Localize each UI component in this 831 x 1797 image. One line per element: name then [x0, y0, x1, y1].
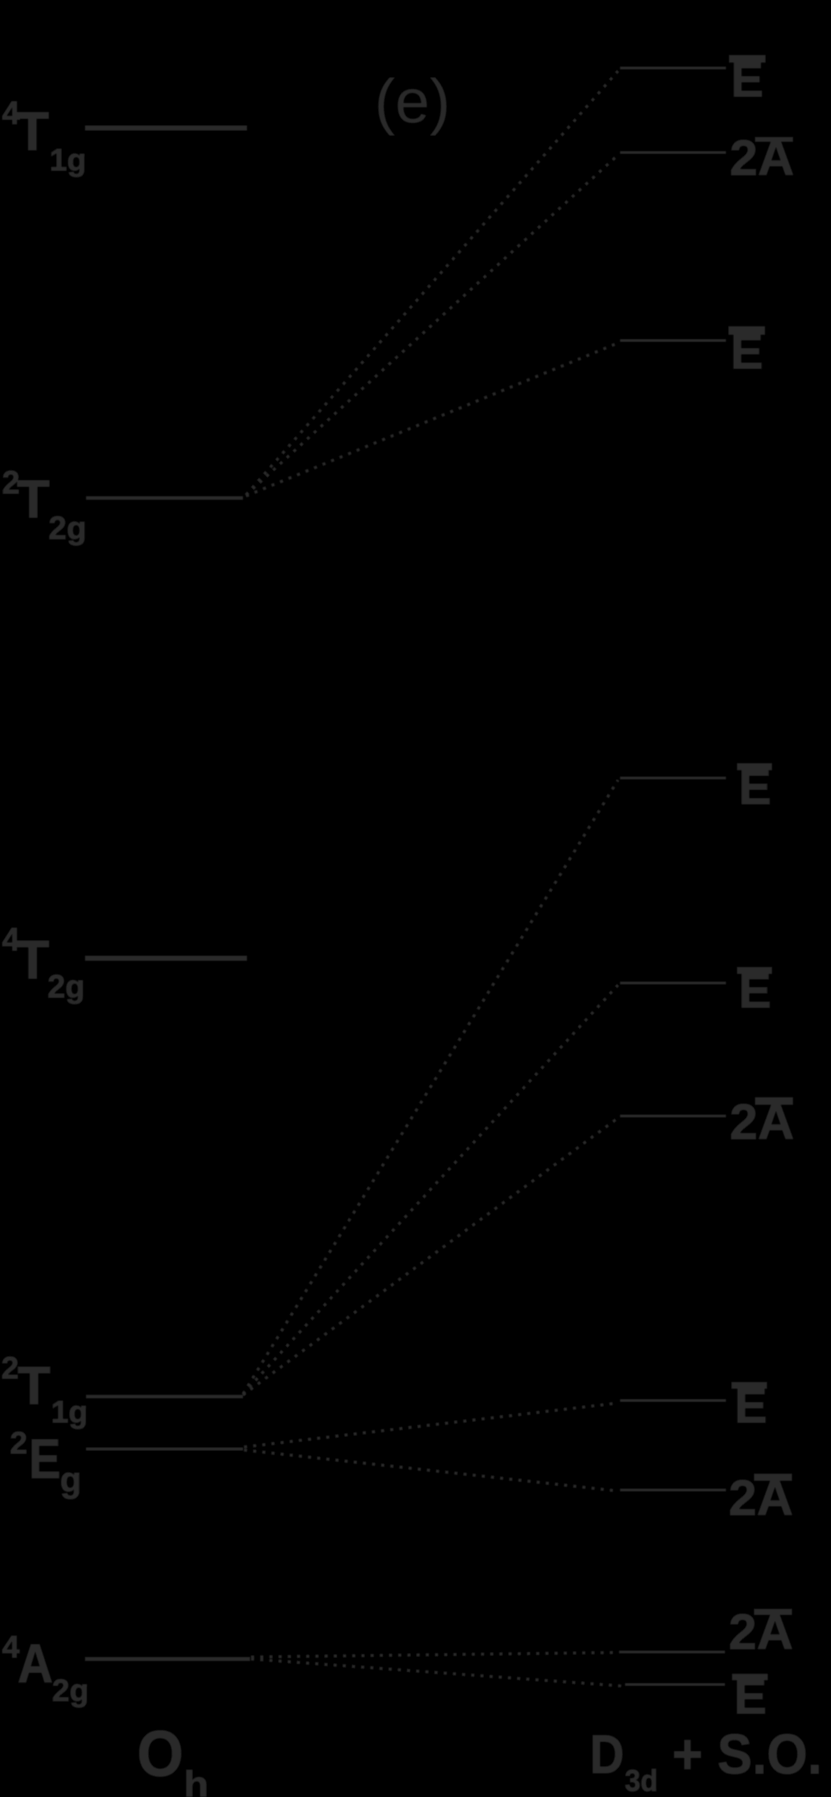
svg-text:T: T: [18, 1356, 51, 1416]
svg-text:A: A: [18, 1633, 54, 1694]
svg-text:2: 2: [1, 1350, 19, 1386]
svg-text:1g: 1g: [51, 1393, 88, 1429]
svg-text:1g: 1g: [50, 142, 87, 178]
svg-text:3d: 3d: [625, 1763, 658, 1797]
svg-text:T: T: [16, 930, 49, 991]
svg-text:2g: 2g: [48, 968, 85, 1004]
svg-text:T: T: [16, 100, 50, 162]
svg-text:D: D: [590, 1723, 624, 1785]
svg-text:2g: 2g: [52, 1672, 89, 1708]
svg-text:O: O: [137, 1718, 184, 1790]
svg-text:T: T: [17, 469, 50, 529]
svg-text:2: 2: [10, 1425, 28, 1461]
svg-text:(e): (e): [375, 68, 451, 137]
svg-text:g: g: [60, 1461, 81, 1500]
svg-text:+ S.O.: + S.O.: [672, 1723, 822, 1787]
svg-text:E: E: [29, 1428, 61, 1490]
svg-text:2g: 2g: [49, 510, 87, 546]
svg-text:h: h: [184, 1764, 209, 1797]
